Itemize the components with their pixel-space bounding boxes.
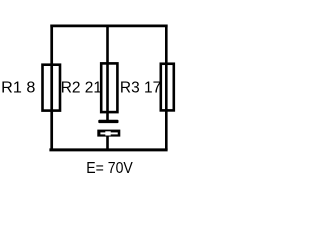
svg-text:E= 70V: E= 70V bbox=[86, 160, 133, 177]
svg-text:R1 8: R1 8 bbox=[1, 80, 35, 97]
svg-text:R3 17: R3 17 bbox=[120, 80, 161, 97]
svg-text:R2 21: R2 21 bbox=[61, 80, 103, 97]
